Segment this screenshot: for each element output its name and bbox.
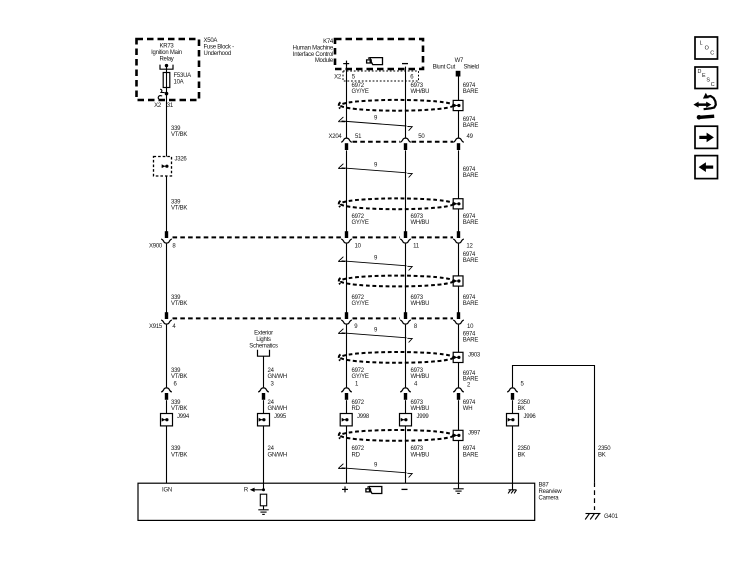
label 6974 BARE xyxy=(463,83,479,95)
label J995 xyxy=(274,414,287,420)
pin 1 label xyxy=(355,381,359,387)
svg-text:BARE: BARE xyxy=(463,338,479,344)
shield ellipse 1 xyxy=(339,100,454,111)
wire 339 VT/BK segment to J994 xyxy=(166,400,168,413)
connector X2 dotted box on K74 xyxy=(343,71,419,81)
inline connector wire B xyxy=(258,388,269,400)
wire 339 VT/BK segment X915 to inline connector xyxy=(166,325,168,388)
label 6974 BARE xyxy=(463,295,479,307)
relay KR73 contact symbol xyxy=(160,64,173,69)
svg-text:BK: BK xyxy=(598,452,606,458)
minus terminal camera xyxy=(402,488,408,490)
label J999 xyxy=(417,414,430,420)
svg-text:J997: J997 xyxy=(468,431,481,437)
wire 339 VT/BK segment J994 to camera xyxy=(166,426,168,483)
svg-text:BARE: BARE xyxy=(463,301,479,307)
svg-text:VT/BK: VT/BK xyxy=(171,406,187,412)
label 2350 BK xyxy=(518,446,531,458)
shield drain splice box 1 xyxy=(453,100,463,110)
wire 6973 WH/BU segment X204 to X900 xyxy=(405,150,407,232)
twisted pair marker 1 xyxy=(338,116,412,131)
label 6973 WH/BU xyxy=(411,83,430,95)
twisted pair marker 4 xyxy=(338,327,412,342)
label 339 VT/BK xyxy=(171,368,187,380)
label Exterior Lights Schematics xyxy=(249,331,278,350)
wire 24 GN/WH segment J995 to camera xyxy=(263,426,265,490)
wire 6972 GY/YE segment X915 to inline connector xyxy=(346,325,348,388)
svg-text:Fuse Block -: Fuse Block - xyxy=(204,44,235,50)
svg-text:Ignition Main: Ignition Main xyxy=(151,50,182,56)
svg-text:Lights: Lights xyxy=(256,337,271,343)
splice J997 box xyxy=(453,430,463,440)
wire 2350 BK segment J996 to camera xyxy=(512,426,514,483)
svg-text:Interface Control: Interface Control xyxy=(293,52,333,58)
svg-text:51: 51 xyxy=(355,134,362,140)
connector X204 labels xyxy=(328,134,473,140)
label 6972 RD xyxy=(352,446,365,458)
svg-text:GY/YE: GY/YE xyxy=(352,301,369,307)
svg-text:BARE: BARE xyxy=(463,220,479,226)
wire 24 GN/WH segment bracket to inline connector xyxy=(263,356,265,387)
svg-text:J999: J999 xyxy=(417,414,430,420)
blunt cut terminal W7 xyxy=(456,71,461,77)
splice J999 box xyxy=(400,414,412,426)
splice pack J326 box xyxy=(154,157,172,177)
svg-text:GY/YE: GY/YE xyxy=(352,220,369,226)
inline connector wire A xyxy=(161,388,172,400)
svg-text:J996: J996 xyxy=(524,414,537,420)
connector X204 terminal wire D xyxy=(400,138,411,150)
label 6972 GY/YE xyxy=(352,214,369,226)
svg-text:J994: J994 xyxy=(177,414,190,420)
shield ellipse 3 xyxy=(339,276,454,287)
splice J996 box xyxy=(507,414,519,426)
connector X900 terminal wire E xyxy=(453,231,464,243)
label 6974 BARE xyxy=(463,252,479,264)
svg-text:L: L xyxy=(700,41,703,47)
svg-text:BARE: BARE xyxy=(463,376,479,382)
svg-text:O: O xyxy=(705,46,709,52)
wire 6972 RD segment J998 to camera xyxy=(346,426,348,483)
svg-text:J998: J998 xyxy=(357,414,370,420)
svg-text:IGN: IGN xyxy=(162,488,172,494)
plus terminal K74 xyxy=(343,61,349,67)
svg-text:Camera: Camera xyxy=(539,495,560,501)
shield ellipse 4 xyxy=(339,352,454,363)
svg-text:X900: X900 xyxy=(149,243,163,249)
module K74 box xyxy=(335,39,423,69)
nav button next arrow xyxy=(695,126,718,148)
svg-text:C: C xyxy=(711,82,715,88)
connector X2 label and pins 5 6 xyxy=(334,75,414,81)
svg-text:VT/BK: VT/BK xyxy=(171,452,187,458)
label 2350 BK right branch xyxy=(598,446,611,458)
label 339 VT/BK xyxy=(171,446,187,458)
wire 2350 BK dashed segment to G401 xyxy=(594,482,596,510)
label KR73 Ignition Main Relay xyxy=(151,44,182,63)
wire 6973 WH/BU segment K74 to X204 xyxy=(405,67,407,138)
connector X915 terminal wire A xyxy=(161,312,172,324)
twisted pair marker 5 xyxy=(338,462,412,477)
svg-text:6974: 6974 xyxy=(463,446,476,452)
chassis ground wire F termination xyxy=(508,483,516,493)
connector X2 pin 31 labels xyxy=(154,103,174,109)
svg-text:BARE: BARE xyxy=(463,89,479,95)
label 6974 BARE xyxy=(463,371,479,383)
svg-text:Relay: Relay xyxy=(159,56,173,62)
label 6974 BARE xyxy=(463,117,479,129)
svg-text:339: 339 xyxy=(171,446,181,452)
wire 6974 BARE segment W7 to splice xyxy=(458,77,460,101)
wire 6974 BARE segment X900 to splice 3 xyxy=(458,244,460,276)
label J326 xyxy=(175,157,188,163)
svg-text:F53UA: F53UA xyxy=(174,73,192,79)
nav button back arrow xyxy=(695,156,718,179)
nav button DESC xyxy=(695,67,718,89)
twisted pair marker 2 xyxy=(338,162,412,177)
plus terminal camera xyxy=(342,486,348,492)
shield ellipse 5 xyxy=(339,430,454,441)
svg-text:GN/WH: GN/WH xyxy=(268,452,287,458)
svg-text:WH/BU: WH/BU xyxy=(411,452,430,458)
svg-text:WH/BU: WH/BU xyxy=(411,406,430,412)
wire 6974 BARE segment splice to X204 xyxy=(458,111,460,138)
connector X900 terminal wire C xyxy=(341,231,352,243)
svg-text:12: 12 xyxy=(466,243,473,249)
wire 6973 WH/BU segment to J999 xyxy=(405,400,407,413)
wire 6972 RD segment to J998 xyxy=(346,400,348,413)
wire 6973 WH/BU segment X915 to inline connector xyxy=(405,325,407,388)
label 6972 GY/YE xyxy=(352,83,369,95)
wire 339 VT/BK segment X900 to X915 xyxy=(166,244,168,313)
label 6973 WH/BU xyxy=(411,295,430,307)
splice J903 box xyxy=(453,352,463,362)
connector X915 labels xyxy=(149,324,474,330)
wire 6972 GY/YE segment K74 to X204 xyxy=(346,67,348,138)
label 24 GN/WH xyxy=(268,368,287,380)
svg-text:50: 50 xyxy=(418,134,425,140)
svg-text:Shield: Shield xyxy=(464,65,479,71)
terminal label R with arrow xyxy=(244,488,265,494)
label 6974 BARE xyxy=(463,167,479,179)
connector X900 terminal wire A xyxy=(161,231,172,243)
pin 4 label xyxy=(414,381,418,387)
svg-text:Schematics: Schematics xyxy=(249,343,278,349)
svg-text:2350: 2350 xyxy=(518,446,531,452)
wire 6973 WH/BU segment X900 to X915 xyxy=(405,244,407,313)
svg-text:Exterior: Exterior xyxy=(254,331,273,337)
svg-text:GY/YE: GY/YE xyxy=(352,89,369,95)
label 6974 WH xyxy=(463,400,476,412)
label W7 Blunt Cut Shield xyxy=(433,58,479,71)
wire 2350 BK segment to J996 xyxy=(512,400,514,413)
fuse output clip and junction dot xyxy=(158,88,168,101)
shield drain splice box 2 xyxy=(453,199,463,209)
svg-text:RD: RD xyxy=(352,452,361,458)
label J996 xyxy=(524,414,537,420)
svg-text:S: S xyxy=(706,78,710,84)
svg-text:6973: 6973 xyxy=(411,446,424,452)
label J903 xyxy=(468,353,481,359)
svg-text:VT/BK: VT/BK xyxy=(171,206,187,212)
svg-text:BARE: BARE xyxy=(463,123,479,129)
nav button LOC xyxy=(695,37,718,59)
svg-text:W7: W7 xyxy=(455,58,464,64)
label K74 Human Machine Interface Control Module xyxy=(293,39,334,64)
svg-text:BK: BK xyxy=(518,452,526,458)
wire 6974 BARE segment X915 to J903 xyxy=(458,325,460,353)
label 339 VT/BK xyxy=(171,400,187,412)
label G401 xyxy=(604,514,619,520)
inline connector wire D xyxy=(400,388,411,400)
inline connector wire E xyxy=(453,388,464,400)
label 6972 RD xyxy=(352,400,365,412)
connector X900 terminal wire D xyxy=(400,231,411,243)
wire 339 VT/BK segment fuse block to J326 xyxy=(166,100,168,157)
svg-text:GN/WH: GN/WH xyxy=(268,374,287,380)
wire 6974 BARE segment J997 to camera xyxy=(458,441,460,484)
connector X204 dashed harness line xyxy=(353,141,454,143)
svg-text:J995: J995 xyxy=(274,414,287,420)
svg-text:10: 10 xyxy=(467,324,474,330)
svg-text:WH: WH xyxy=(463,406,473,412)
connector X204 terminal wire C xyxy=(341,138,352,150)
connector X915 terminal wire C xyxy=(341,312,352,324)
svg-text:K74: K74 xyxy=(323,39,334,45)
label 2350 BK xyxy=(518,400,531,412)
label X50A Fuse Block - Underhood xyxy=(204,38,235,57)
connector X915 dashed harness line xyxy=(173,317,454,319)
fuse F53UA 10A xyxy=(163,73,170,88)
minus terminal K74 xyxy=(402,63,408,65)
label J998 xyxy=(357,414,370,420)
svg-text:E: E xyxy=(702,73,706,79)
svg-text:X204: X204 xyxy=(328,134,342,140)
svg-text:VT/BK: VT/BK xyxy=(171,301,187,307)
svg-text:2350: 2350 xyxy=(598,446,611,452)
camera icon in B87 xyxy=(366,487,382,494)
pin 2 label xyxy=(467,383,471,389)
label 6973 WH/BU xyxy=(411,400,430,412)
svg-text:X915: X915 xyxy=(149,324,163,330)
connector X900 labels xyxy=(149,243,474,249)
wire 6972 GY/YE segment X204 to X900 xyxy=(346,150,348,232)
svg-text:6972: 6972 xyxy=(352,446,365,452)
wire 6974 BARE segment splice 2 to X900 xyxy=(458,209,460,232)
pin 6 label xyxy=(174,381,178,387)
svg-text:GY/YE: GY/YE xyxy=(352,374,369,380)
svg-text:49: 49 xyxy=(467,134,474,140)
label 339 VT/BK xyxy=(171,295,187,307)
svg-text:Human Machine: Human Machine xyxy=(293,45,334,51)
shield drain splice box 3 xyxy=(453,276,463,286)
wire 339 VT/BK segment J326 to X900 xyxy=(166,176,168,232)
splice J995 box xyxy=(258,414,270,426)
label 6972 GY/YE xyxy=(352,295,369,307)
svg-text:WH/BU: WH/BU xyxy=(411,301,430,307)
svg-text:BK: BK xyxy=(518,406,526,412)
svg-text:GN/WH: GN/WH xyxy=(268,406,287,412)
label 6974 BARE xyxy=(463,446,479,458)
svg-text:J903: J903 xyxy=(468,353,481,359)
resistor in camera xyxy=(260,494,266,509)
terminal label IGN xyxy=(162,488,172,494)
connector X915 terminal wire D xyxy=(400,312,411,324)
svg-text:B87: B87 xyxy=(539,483,550,489)
svg-text:X2: X2 xyxy=(334,75,342,81)
splice J994 box xyxy=(161,414,173,426)
label 24 GN/WH xyxy=(268,446,287,458)
svg-text:24: 24 xyxy=(268,446,275,452)
svg-text:Underhood: Underhood xyxy=(204,51,231,57)
wire 24 GN/WH segment to J995 xyxy=(263,400,265,413)
svg-text:WH/BU: WH/BU xyxy=(411,220,430,226)
label 6973 WH/BU xyxy=(411,368,430,380)
svg-text:Blunt Cut: Blunt Cut xyxy=(433,65,456,71)
label 6973 WH/BU xyxy=(411,214,430,226)
label 339 VT/BK xyxy=(171,200,187,212)
connector X915 terminal wire E xyxy=(453,312,464,324)
svg-text:Rearview: Rearview xyxy=(539,489,563,495)
svg-text:10: 10 xyxy=(355,243,362,249)
svg-text:Module: Module xyxy=(315,58,334,64)
svg-text:KR73: KR73 xyxy=(159,44,174,50)
camera B87 box xyxy=(138,483,535,520)
wire 6973 WH/BU segment J999 to camera xyxy=(405,426,407,483)
svg-text:10A: 10A xyxy=(174,80,184,86)
svg-text:31: 31 xyxy=(167,103,174,109)
svg-text:VT/BK: VT/BK xyxy=(171,132,187,138)
camera icon in K74 xyxy=(367,58,383,65)
label B87 Rearview Camera xyxy=(539,483,563,502)
inline connector wire C xyxy=(341,388,352,400)
svg-text:BARE: BARE xyxy=(463,258,479,264)
inline connector wire F xyxy=(507,388,518,400)
ground G401 xyxy=(585,514,600,520)
wire 2350 BK top loop xyxy=(513,366,595,483)
off-page bracket xyxy=(258,350,270,356)
svg-text:D: D xyxy=(698,69,702,75)
label F53UA 10A xyxy=(174,73,192,85)
nav icon wire route arrows xyxy=(693,93,715,120)
svg-text:BARE: BARE xyxy=(463,452,479,458)
wire relay to fuse xyxy=(166,66,168,73)
label J997 xyxy=(468,431,481,437)
svg-text:J326: J326 xyxy=(175,157,188,163)
wire 6974 BARE segment J903 to inline connector xyxy=(458,363,460,388)
label 6972 GY/YE xyxy=(352,368,369,380)
label 6974 BARE xyxy=(463,332,479,344)
svg-text:RD: RD xyxy=(352,406,361,412)
svg-text:G401: G401 xyxy=(604,514,619,520)
twisted pair marker 3 xyxy=(338,255,412,270)
label 24 GN/WH xyxy=(268,400,287,412)
wire 6974 BARE segment X204 to splice 2 xyxy=(458,150,460,198)
svg-text:BARE: BARE xyxy=(463,173,479,179)
ground symbol under resistor xyxy=(258,510,268,515)
fuse block X50A box xyxy=(137,39,200,100)
pin 3 label xyxy=(271,381,275,387)
svg-text:X2: X2 xyxy=(154,103,162,109)
svg-text:C: C xyxy=(710,50,714,56)
connector X204 terminal wire E xyxy=(453,138,464,150)
wire 6972 GY/YE segment X900 to X915 xyxy=(346,244,348,313)
splice J998 box xyxy=(340,414,352,426)
pin 5 label xyxy=(521,381,525,387)
label J994 xyxy=(177,414,190,420)
svg-text:WH/BU: WH/BU xyxy=(411,89,430,95)
connector X900 dashed harness line xyxy=(173,236,454,238)
ground symbol wire E termination xyxy=(453,483,463,493)
wire 6974 BARE segment splice 3 to X915 xyxy=(458,286,460,313)
wire 6974 WH segment to J997 xyxy=(458,400,460,430)
label 6973 WH/BU xyxy=(411,446,430,458)
svg-text:X50A: X50A xyxy=(204,38,218,44)
shield ellipse 2 xyxy=(339,198,454,209)
label 6974 BARE xyxy=(463,214,479,226)
svg-text:11: 11 xyxy=(413,243,420,249)
svg-text:WH/BU: WH/BU xyxy=(411,374,430,380)
label 339 VT/BK xyxy=(171,126,187,138)
svg-text:VT/BK: VT/BK xyxy=(171,374,187,380)
